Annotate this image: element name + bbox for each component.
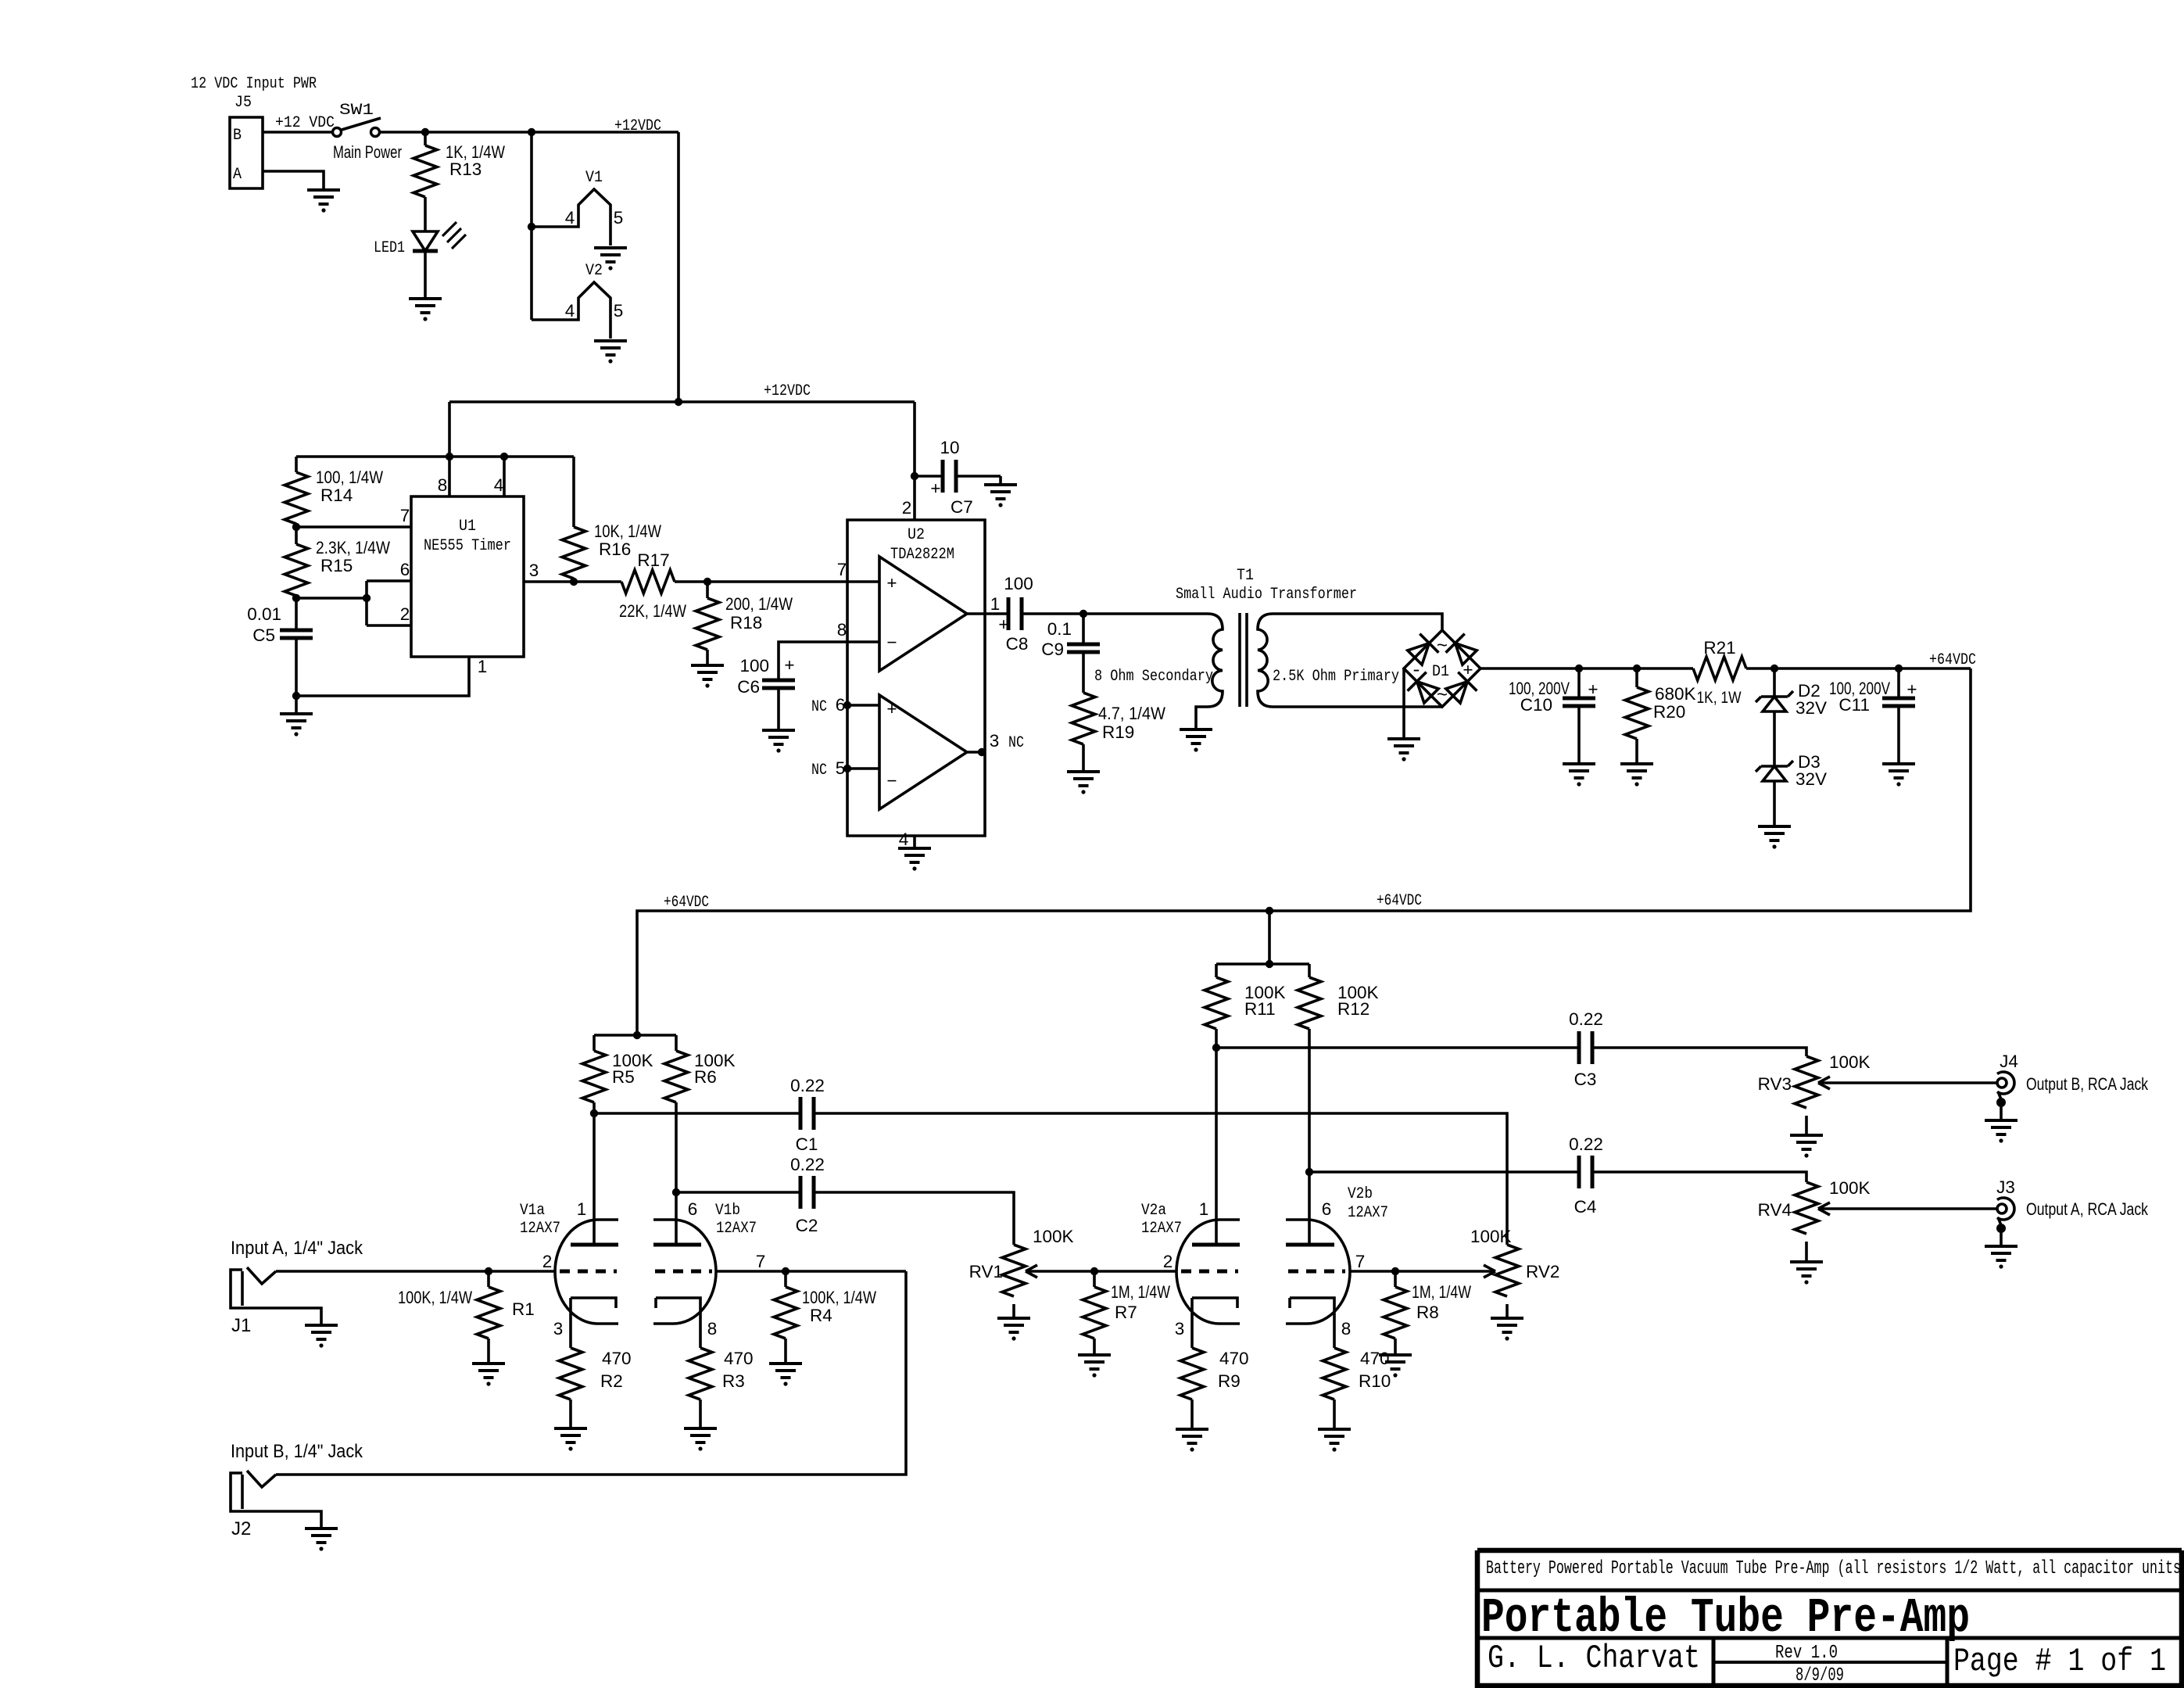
svg-text:12AX7: 12AX7 [520,1220,560,1238]
svg-text:1: 1 [990,594,1001,614]
wire C10 top lead [1577,668,1581,697]
svg-text:+: + [1907,679,1917,699]
svg-text:+: + [1588,679,1598,699]
svg-text:C4: C4 [1574,1197,1597,1217]
svg-text:R8: R8 [1416,1303,1439,1322]
svg-text:2: 2 [542,1252,553,1271]
svg-text:R17: R17 [637,550,669,570]
wire C6 to ground [777,689,780,730]
junction R5 R6 [633,1031,641,1039]
junction R7 [1090,1267,1098,1275]
potentiometer RV3 [1795,1056,1818,1108]
ground C5 [280,714,313,728]
svg-text:470: 470 [724,1349,754,1368]
wire C8 to junction [1022,612,1208,615]
svg-text:4: 4 [565,301,575,321]
wire +12VDC right drop [677,132,680,402]
junction U2 pin 6 NC [843,701,851,709]
svg-text:R14: R14 [320,486,353,505]
resistor R19 [1072,693,1095,744]
svg-text:NE555 Timer: NE555 Timer [424,537,511,555]
wire RV1 to ground [1012,1304,1015,1318]
svg-text:2: 2 [1163,1252,1173,1271]
wire C4 left [1309,1170,1579,1174]
svg-text:J3: J3 [1996,1177,2015,1197]
wire input B riser [276,1271,906,1475]
svg-text:470: 470 [1219,1349,1249,1368]
junction R4 [782,1267,789,1275]
svg-text:R19: R19 [1102,722,1134,742]
svg-text:100K, 1/4W: 100K, 1/4W [398,1288,473,1307]
diode D1 bottom-left [1408,672,1439,704]
wire RV1 wiper to V2a grid [1026,1270,1176,1273]
svg-text:0.22: 0.22 [1569,1134,1603,1154]
ground J2 [305,1529,338,1543]
svg-text:10: 10 [940,438,959,457]
wire T1 primary bottom to D1 [1273,705,1442,708]
switch SW1 [333,128,342,137]
tube V2b cathode [1290,1298,1334,1348]
wire R5 to plate V1a [593,1102,596,1245]
ground R19 [1067,772,1100,786]
svg-text:T1: T1 [1237,567,1254,585]
svg-text:Input A, 1/4" Jack: Input A, 1/4" Jack [231,1238,363,1259]
capacitor C2 [800,1176,814,1209]
wire C5 to ground [295,638,298,714]
svg-text:+64VDC: +64VDC [1377,892,1422,910]
ground R9 [1176,1429,1208,1443]
svg-text:-: - [1411,661,1422,682]
RCA jack J3 [1997,1204,2007,1213]
svg-text:+64VDC: +64VDC [1929,651,1976,669]
connector J5 [230,117,263,188]
svg-text:+12VDC: +12VDC [614,117,661,135]
resistor R13 [414,145,437,197]
ground J3 [1985,1246,2018,1260]
svg-text:R13: R13 [449,159,482,179]
svg-text:32V: 32V [1796,698,1827,718]
svg-text:100K: 100K [1829,1052,1871,1072]
svg-text:G. L. Charvat: G. L. Charvat [1488,1640,1700,1677]
svg-text:RV4: RV4 [1758,1200,1792,1220]
wire C6 to U2 pin 8 [779,642,879,679]
svg-text:+: + [784,655,794,675]
svg-text:6: 6 [1322,1199,1332,1219]
svg-text:+: + [1463,660,1473,679]
wire SW1 to +12VDC rail corner [380,131,678,134]
svg-text:C10: C10 [1520,695,1552,715]
wire R14 bottom lead [295,524,298,544]
junction U1 pin 4 rail [500,453,508,461]
junction C5 pin1 [292,692,300,700]
wire J5 pin B to SW1 [263,131,333,134]
svg-text:+: + [998,615,1008,634]
svg-text:C6: C6 [737,677,760,697]
ground RV2 [1491,1318,1523,1332]
svg-text:2.3K, 1/4W: 2.3K, 1/4W [316,538,391,557]
svg-text:+12VDC: +12VDC [764,382,811,400]
ground C10 [1563,764,1595,778]
svg-text:R11: R11 [1244,999,1276,1019]
wire R6 top lead [675,1035,678,1051]
ground J4 [1985,1120,2018,1134]
ground J5 pin A [307,190,340,204]
wire rail2 left drop [448,402,451,457]
svg-text:1: 1 [1199,1199,1209,1219]
svg-text:C5: C5 [252,625,275,645]
svg-text:3: 3 [990,731,1000,751]
tube V1 envelope [555,1220,716,1324]
svg-text:V2: V2 [585,262,603,280]
wire R16 bottom stub [572,579,575,582]
resistor R14 [285,472,308,524]
junction U2 pin 3 NC [978,748,986,756]
svg-text:100: 100 [1004,574,1033,593]
tube V2a grid [1181,1270,1238,1274]
svg-text:RV3: RV3 [1758,1074,1792,1094]
svg-text:Battery Powered Portable Vacuu: Battery Powered Portable Vacuum Tube Pre… [1486,1558,2181,1579]
junction R15 C5 [292,594,300,602]
junction +12 rail drop [675,398,682,406]
junction R1 [485,1267,492,1275]
ground C6 [762,730,795,744]
wire U1 pin 2 [367,624,411,627]
svg-text:100K, 1/4W: 100K, 1/4W [802,1288,877,1307]
svg-text:7: 7 [1355,1252,1366,1271]
resistor R15 [285,544,308,596]
svg-text:R4: R4 [810,1306,832,1325]
svg-text:8: 8 [707,1319,718,1339]
wire R12 top lead [1308,964,1311,977]
wire V2 supply drop [1268,911,1271,964]
tube V1a cathode [571,1298,616,1348]
wire J4 to RV3 wiper [1818,1081,1997,1084]
resistor R9 [1180,1348,1204,1399]
wire J3 shield to ground [2000,1228,2003,1246]
potentiometer RV4 [1795,1182,1818,1234]
svg-text:4.7, 1/4W: 4.7, 1/4W [1098,704,1166,723]
op-amp U2B [879,695,967,809]
wire J1 to V1a grid [276,1270,555,1273]
svg-text:LED1: LED1 [374,239,405,257]
ground RV1 [997,1318,1030,1332]
svg-text:V2b: V2b [1348,1185,1373,1203]
wire C9 to R19 [1082,653,1085,693]
wire R4 top lead [784,1271,787,1287]
svg-text:−: − [886,771,897,790]
svg-text:4: 4 [494,475,504,495]
ground R18 [691,665,724,679]
svg-text:3: 3 [1175,1319,1185,1339]
ground R1 [472,1364,505,1378]
wire R11 R12 top link [1216,962,1309,966]
resistor R17 [621,570,675,593]
svg-text:1: 1 [577,1199,587,1219]
svg-text:8: 8 [1341,1319,1352,1339]
svg-text:1M, 1/4W: 1M, 1/4W [1111,1282,1171,1302]
wire RV2 to ground [1506,1304,1509,1318]
junction U2 pin 5 NC [843,765,851,772]
ground RV4 [1790,1262,1823,1276]
bridge rectifier D1 [1404,630,1480,707]
tube V1a plate [571,1243,618,1247]
resistor R3 [689,1348,712,1399]
wire U2A output [967,612,1008,615]
svg-text:R6: R6 [694,1067,717,1087]
resistor R6 [664,1051,688,1102]
svg-text:+: + [886,699,897,719]
wire RV4 to ground [1805,1242,1808,1262]
junction C7 tap [911,472,918,480]
resistor R20 [1625,687,1649,739]
resistor R4 [774,1287,797,1339]
svg-text:1K, 1W: 1K, 1W [1697,688,1742,707]
wire C2 left [676,1191,800,1194]
wire U2 pin 4 [913,836,916,848]
capacitor C7 [943,460,956,493]
ground D3 [1758,826,1791,840]
svg-text:1M, 1/4W: 1M, 1/4W [1412,1282,1472,1302]
junction J4 shield [1996,1098,2006,1107]
wire U1 pin 6 [367,579,411,582]
wire U1 pin 8 [448,457,451,496]
transformer T1 primary coil [1258,614,1273,707]
wire R9 to ground [1190,1399,1194,1429]
wire R10 to ground [1333,1399,1336,1429]
junction R16 pin3 [570,578,578,586]
svg-text:100K: 100K [1033,1227,1074,1246]
zener diode D3 [1756,761,1793,781]
wire U2 pin 5 stub [847,767,879,770]
svg-text:470: 470 [1360,1349,1390,1368]
junction R18 top [704,578,711,586]
svg-text:Output B, RCA Jack: Output B, RCA Jack [2026,1074,2149,1094]
junction C1 tap [590,1109,598,1117]
ground LED1 [409,299,442,313]
capacitor C4 [1579,1156,1592,1188]
ground R7 [1078,1355,1111,1369]
svg-text:Page # 1 of 1: Page # 1 of 1 [1953,1643,2166,1680]
junction V1 pin 4 [528,223,535,231]
wire +64VDC rail [637,668,1971,1035]
resistor R12 [1298,977,1321,1029]
svg-text:Portable Tube Pre-Amp: Portable Tube Pre-Amp [1481,1590,1970,1646]
potentiometer RV2 [1495,1245,1519,1296]
svg-text:7: 7 [756,1252,766,1271]
wire R1 to ground [487,1339,490,1364]
svg-text:R20: R20 [1653,702,1685,722]
svg-text:V2a: V2a [1141,1202,1166,1220]
wire T1 primary top to D1 [1273,614,1442,630]
junction C4 tap [1305,1168,1313,1176]
svg-text:7: 7 [400,506,410,525]
wire R16 top lead [572,457,575,527]
junction pin6-2 link [363,594,371,602]
wire C4 right to RV4 [1592,1172,1806,1182]
svg-text:+12 VDC: +12 VDC [275,114,335,132]
svg-text:NC: NC [811,762,827,779]
svg-text:U1: U1 [459,518,476,536]
capacitor C6 [762,680,795,688]
svg-text:R12: R12 [1337,999,1369,1019]
wire R11 to plate V2a [1215,1029,1218,1245]
wire R17 to U2 pin 7 [675,580,879,583]
svg-text:12 VDC Input PWR: 12 VDC Input PWR [191,75,317,93]
svg-text:R2: R2 [600,1371,623,1391]
ground RV3 [1790,1135,1823,1149]
resistor R7 [1083,1287,1106,1339]
svg-text:R5: R5 [612,1067,635,1087]
wire J4 shield to ground [2000,1102,2003,1120]
svg-text:12AX7: 12AX7 [1348,1204,1388,1222]
ground U2 pin 4 [898,848,931,862]
title block border [1477,1550,2182,1686]
svg-text:+: + [930,478,940,498]
capacitor C10 [1563,698,1595,706]
svg-text:R9: R9 [1218,1371,1241,1391]
svg-text:J4: J4 [2000,1052,2018,1071]
ground R20 [1620,764,1653,778]
capacitor C3 [1579,1031,1592,1064]
svg-text:12AX7: 12AX7 [1141,1220,1182,1238]
tube V2a cathode [1192,1298,1237,1348]
ground R8 [1379,1355,1412,1369]
wire U1 top rail [296,455,574,458]
wire RV3 to ground [1805,1116,1808,1135]
ground D1 minus [1387,739,1420,753]
wire U1 pin 7 [296,525,411,529]
junction heater drop [528,128,535,136]
junction R11 R12 [1266,960,1273,968]
svg-text:V1: V1 [585,169,603,187]
tube V1a grid [560,1270,617,1274]
wire R18 to ground [706,650,709,665]
svg-text:8: 8 [438,475,448,495]
op-amp U2A [879,557,967,671]
ground R3 [684,1428,717,1443]
svg-text:Main Power: Main Power [333,142,402,162]
wire D2 top lead [1773,668,1776,697]
svg-text:6: 6 [836,695,846,715]
ground T1 secondary [1180,729,1212,744]
wire U1 pin 3 [524,580,621,583]
svg-text:+: + [886,573,897,593]
IC U1 NE555 [411,496,524,657]
capacitor C9 [1067,644,1100,652]
wire R3 to ground [699,1399,702,1428]
wire R18 top lead [706,582,709,598]
svg-text:NC: NC [811,698,827,716]
svg-text:U2: U2 [908,526,925,544]
junction C10 [1575,665,1583,672]
svg-text:12AX7: 12AX7 [716,1220,757,1238]
capacitor C8 [1008,597,1022,630]
wire R20 to ground [1635,739,1638,764]
svg-text:0.01: 0.01 [247,604,281,624]
svg-text:6: 6 [688,1199,698,1219]
svg-text:~: ~ [1437,686,1448,707]
wire LED1 to ground [424,251,427,299]
svg-text:0.1: 0.1 [1047,619,1072,639]
svg-text:C7: C7 [951,497,973,517]
svg-text:B: B [233,127,242,145]
jack J2 [231,1473,321,1529]
svg-text:TDA2822M: TDA2822M [890,546,954,564]
svg-text:R16: R16 [599,539,631,559]
junction R20 [1633,665,1641,672]
wire R14 top lead [295,457,298,472]
svg-text:C2: C2 [796,1216,818,1235]
wire heater drop vertical [530,132,533,320]
ground V1 pin 5 [594,248,627,262]
wire D1 plus rail [1480,667,1693,670]
svg-text:J1: J1 [231,1315,251,1336]
ground R2 [554,1428,587,1443]
wire R4 to ground [784,1339,787,1364]
svg-text:22K, 1/4W: 22K, 1/4W [619,601,687,621]
svg-text:100: 100 [739,656,769,676]
wire D3 to ground [1773,781,1776,826]
svg-text:A: A [233,166,242,184]
LED LED1 [413,231,438,251]
junction C8 C9 T1 [1079,610,1087,618]
resistor R10 [1323,1348,1346,1399]
resistor R5 [582,1051,606,1102]
svg-text:C8: C8 [1006,634,1029,654]
wire J5 pin A to ground [263,171,324,190]
wire R7 to ground [1093,1339,1096,1355]
svg-text:NC: NC [1008,734,1024,752]
svg-text:R7: R7 [1115,1303,1137,1322]
zener diode D2 [1756,691,1793,711]
resistor R18 [696,598,719,650]
svg-text:0.22: 0.22 [1569,1009,1603,1029]
svg-text:R18: R18 [730,613,762,633]
jack J1 [231,1270,321,1325]
capacitor C5 [280,630,313,638]
junction V2 supply drop [1266,907,1273,915]
svg-text:3: 3 [553,1319,564,1339]
svg-text:R3: R3 [722,1371,745,1391]
svg-text:5: 5 [836,758,846,778]
tube V2b grid [1288,1270,1345,1274]
svg-text:J5: J5 [235,94,252,112]
wire D2 to D3 [1773,711,1776,766]
wire V1b grid to R4 [716,1270,906,1273]
wire C7 to ground [999,476,1002,485]
svg-text:5: 5 [614,208,624,228]
tube heater V2 [532,282,610,339]
wire C1 left [594,1112,800,1115]
ground C11 [1882,764,1915,778]
svg-text:V1a: V1a [520,1202,545,1220]
wire C3 left [1216,1046,1579,1049]
svg-text:~: ~ [1437,636,1448,658]
wire R13 top lead [424,132,427,145]
resistor R2 [559,1348,582,1399]
svg-text:470: 470 [602,1349,632,1368]
svg-text:D1: D1 [1432,663,1449,681]
svg-text:RV2: RV2 [1526,1262,1559,1281]
wire C1 right to RV2 [814,1113,1507,1245]
svg-text:Input B, 1/4" Jack: Input B, 1/4" Jack [231,1441,363,1462]
RCA jack J4 [1997,1078,2007,1088]
svg-text:Small Audio Transformer: Small Audio Transformer [1176,586,1357,604]
wire R20 top lead [1635,668,1638,687]
svg-text:Rev 1.0: Rev 1.0 [1775,1643,1838,1664]
resistor R8 [1384,1287,1407,1339]
wire R19 to ground [1082,744,1085,772]
